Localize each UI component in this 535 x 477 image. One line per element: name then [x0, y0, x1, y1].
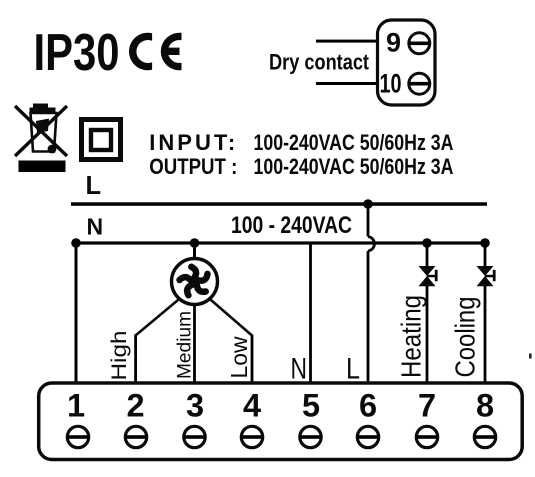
wire fan to terminal 3 (Medium) — [193, 305, 196, 384]
svg-text:100-240VAC 50/60Hz 3A: 100-240VAC 50/60Hz 3A — [254, 154, 454, 179]
svg-text:Low: Low — [226, 336, 252, 378]
svg-text:Heating: Heating — [396, 295, 427, 378]
wire hop over N line — [368, 237, 374, 252]
wire terminal 1 — [75, 243, 78, 384]
terminal 3 screw — [184, 426, 205, 447]
CE mark — [129, 33, 182, 71]
wire Heating valve to terminal 7 — [426, 286, 429, 384]
wire fan to High (diagonal) — [136, 300, 179, 336]
terminal 4 screw — [241, 426, 262, 447]
svg-text:N: N — [87, 214, 104, 240]
WEEE crossed-out wheelie bin symbol — [15, 104, 67, 157]
dry contact terminal box — [378, 20, 436, 105]
WEEE solid bar — [19, 161, 66, 173]
valve Cooling — [477, 266, 496, 286]
svg-text:N: N — [291, 353, 308, 386]
wire N line to Heating valve — [426, 243, 429, 267]
svg-text:5: 5 — [302, 388, 320, 424]
stray mark — [529, 354, 532, 359]
wire Low vertical to terminal 4 — [251, 335, 254, 385]
terminal block — [39, 383, 523, 460]
wire hop to terminal 6 — [367, 251, 370, 384]
svg-text:1: 1 — [67, 388, 85, 424]
valve Heating — [419, 266, 438, 286]
terminal 5 screw — [300, 426, 321, 447]
svg-text:10: 10 — [380, 69, 402, 99]
svg-text:Medium: Medium — [175, 311, 196, 379]
svg-text:2: 2 — [126, 388, 144, 424]
wire to terminal 9 — [316, 40, 378, 43]
wire terminal 5 — [309, 243, 312, 384]
N bus line — [74, 241, 487, 244]
terminal 2 screw — [125, 426, 146, 447]
wire High vertical to terminal 2 — [134, 335, 137, 385]
svg-text:7: 7 — [418, 388, 436, 424]
node on N line at wire 7 — [422, 238, 432, 248]
terminal 1 screw — [67, 426, 88, 447]
svg-text:L: L — [346, 353, 360, 386]
wire Cooling valve to terminal 8 — [484, 286, 487, 384]
svg-text:INPUT:: INPUT: — [149, 130, 238, 155]
wire L line to hop — [367, 204, 370, 237]
wire fan to Low (diagonal) — [210, 300, 252, 336]
svg-text:High: High — [108, 331, 131, 381]
node on N line at fan — [190, 238, 200, 248]
svg-text:100 - 240VAC: 100 - 240VAC — [231, 212, 352, 239]
wire N line to fan — [193, 243, 196, 258]
wire N line to Cooling valve — [484, 243, 487, 267]
svg-text:IP30: IP30 — [34, 23, 120, 81]
terminal 10 screw — [409, 73, 430, 94]
terminal 6 screw — [357, 426, 378, 447]
terminal 7 screw — [416, 426, 437, 447]
svg-text:3: 3 — [186, 388, 204, 424]
svg-text:8: 8 — [476, 388, 494, 424]
node on L line at wire 6 — [363, 199, 373, 209]
svg-text:100-240VAC 50/60Hz 3A: 100-240VAC 50/60Hz 3A — [254, 130, 454, 155]
L bus line — [71, 202, 487, 206]
terminal 8 screw — [474, 426, 495, 447]
wire to terminal 10 — [316, 82, 378, 85]
svg-text:Cooling: Cooling — [450, 297, 481, 378]
terminal 9 screw — [409, 33, 430, 54]
fan motor — [172, 259, 218, 305]
svg-text:Dry contact: Dry contact — [269, 50, 370, 75]
double insulation symbol — [82, 120, 121, 160]
svg-text:9: 9 — [386, 28, 401, 58]
node on N line at wire 8 — [480, 238, 490, 248]
svg-text:L: L — [86, 172, 102, 200]
svg-text:OUTPUT :: OUTPUT : — [149, 154, 237, 179]
svg-text:4: 4 — [243, 388, 261, 424]
svg-text:6: 6 — [359, 388, 377, 424]
node on N line at wire 1 — [71, 238, 81, 248]
